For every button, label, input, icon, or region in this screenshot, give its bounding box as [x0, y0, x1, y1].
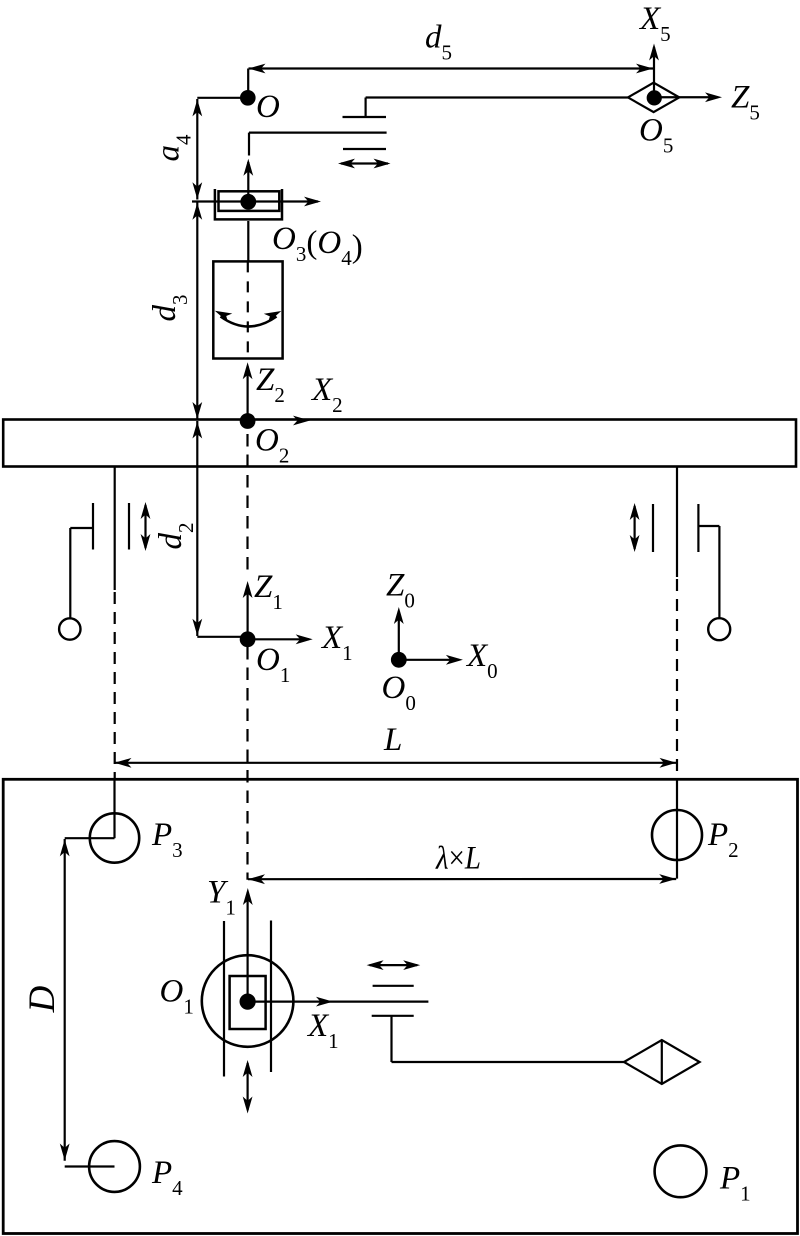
svg-text:X2: X2 — [310, 372, 343, 417]
svg-text:O5: O5 — [639, 113, 673, 158]
svg-text:d3: d3 — [147, 295, 192, 322]
svg-text:O1: O1 — [256, 642, 290, 687]
svg-text:P3: P3 — [151, 817, 183, 862]
svg-text:O2: O2 — [255, 423, 289, 468]
svg-text:λ×L: λ×L — [435, 841, 481, 877]
svg-text:L: L — [383, 722, 402, 758]
svg-text:Z5: Z5 — [731, 80, 760, 125]
svg-text:Y1: Y1 — [207, 875, 236, 920]
svg-text:X0: X0 — [465, 638, 498, 683]
svg-text:P2: P2 — [707, 817, 739, 862]
svg-text:d5: d5 — [425, 20, 452, 65]
svg-text:D: D — [22, 985, 63, 1013]
svg-text:X1: X1 — [320, 620, 353, 665]
svg-text:X1: X1 — [306, 1008, 339, 1053]
svg-text:Z1: Z1 — [254, 569, 283, 614]
svg-text:X5: X5 — [638, 1, 671, 46]
svg-text:O0: O0 — [382, 670, 416, 715]
svg-text:Z2: Z2 — [256, 362, 285, 407]
svg-text:O3(O4): O3(O4) — [272, 221, 363, 270]
svg-text:d2: d2 — [153, 523, 198, 550]
svg-text:Z0: Z0 — [386, 568, 415, 613]
svg-text:P1: P1 — [719, 1161, 751, 1206]
svg-text:P4: P4 — [151, 1155, 183, 1200]
svg-text:O1: O1 — [160, 974, 194, 1019]
svg-text:a4: a4 — [151, 134, 196, 162]
svg-text:O: O — [256, 89, 280, 125]
